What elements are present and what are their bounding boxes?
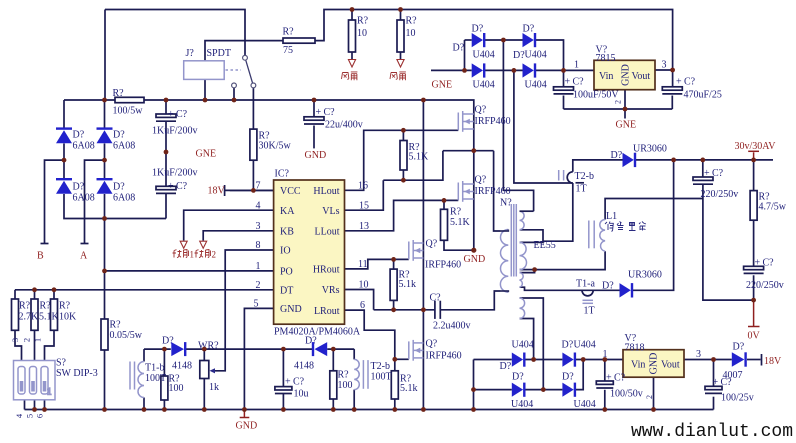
- current transformer T1-a 1T: [576, 279, 595, 317]
- svg-text:220/250v: 220/250v: [746, 280, 784, 291]
- wire switch left contact to bus: [233, 88, 235, 100]
- svg-text:HLout: HLout: [313, 186, 339, 197]
- svg-text:100: 100: [169, 383, 184, 394]
- wire UR3060 no2 cathode riser to output: [633, 160, 674, 290]
- wire WR potentiometer leads: [203, 349, 205, 360]
- resistor R? 100 no1: [161, 374, 184, 401]
- node ground bus junctions: [32, 407, 656, 412]
- wire IC pin16 HLout to Q1 gate: [345, 130, 459, 190]
- capacitor C? 1KuF/200v upper: [152, 109, 198, 136]
- svg-text:100T: 100T: [145, 373, 166, 384]
- capacitor C? 470uF/25: [662, 77, 722, 101]
- transistor Q1 IRFP460: [458, 105, 510, 132]
- svg-text:D?: D?: [113, 130, 125, 141]
- wire C220 no1 top stub: [702, 160, 704, 177]
- ground label GND bus: [236, 421, 258, 432]
- wire output rail 30v: [636, 159, 773, 161]
- svg-text:5.1K: 5.1K: [409, 152, 430, 163]
- svg-text:GND: GND: [649, 353, 660, 375]
- capacitor C? 100/50v: [596, 373, 642, 400]
- wire GNE stub under 7815: [624, 109, 626, 119]
- wire ground bus bottom: [25, 409, 714, 411]
- port 18V left label: [208, 186, 226, 197]
- svg-text:+: +: [676, 77, 682, 88]
- wire 18V bar to IC pin7: [225, 189, 274, 191]
- diode D? U404 low bridge bottom-right: [562, 372, 596, 411]
- diode D? 4007: [723, 342, 746, 382]
- svg-text:IRFP460: IRFP460: [425, 260, 461, 271]
- svg-text:4: 4: [256, 200, 261, 211]
- svg-text:5: 5: [254, 299, 259, 310]
- svg-text:1KuF/200v: 1KuF/200v: [152, 168, 198, 179]
- resistor R? 5.1K divider: [31, 299, 60, 330]
- wire IC pin13 LLout to Q2 gate: [345, 200, 459, 230]
- wire T1-b leads: [143, 349, 145, 361]
- wire L1 top lead to C220 no1: [605, 199, 703, 220]
- svg-text:D?: D?: [73, 182, 85, 193]
- svg-text:D?: D?: [562, 372, 574, 383]
- svg-text:PO: PO: [280, 267, 293, 278]
- svg-text:J?: J?: [186, 48, 195, 59]
- capacitor C? 100/25v: [705, 377, 754, 404]
- port 30v/30AV: [735, 141, 777, 152]
- svg-text:100T: 100T: [371, 372, 392, 383]
- svg-text:DT: DT: [280, 286, 293, 297]
- wire U404 bottom bridge left drop: [473, 360, 475, 410]
- svg-text:R?: R?: [59, 301, 71, 312]
- node Q1 gate divider: [401, 128, 406, 183]
- transistor Q4 IRFP460: [409, 339, 462, 362]
- label control1 control2 (CJK): [173, 250, 217, 260]
- switch S? SW DIP-3: [14, 358, 98, 400]
- svg-text:11: 11: [358, 259, 368, 270]
- wire aux bridge mid node riser to T2-b: [514, 70, 573, 183]
- svg-text:R?: R?: [357, 16, 369, 27]
- svg-text:6A08: 6A08: [113, 193, 135, 204]
- resistor R? 2.7K: [12, 299, 40, 330]
- wire R5.1K no2 leads: [443, 200, 445, 209]
- svg-text:75: 75: [283, 45, 293, 56]
- svg-text:KB: KB: [280, 227, 294, 238]
- svg-text:D?: D?: [73, 130, 85, 141]
- ground symbol GND main: [243, 410, 245, 418]
- svg-text:IRFP460: IRFP460: [475, 116, 511, 127]
- wire 7815 GND pin stub: [624, 90, 626, 109]
- svg-text:13: 13: [359, 221, 369, 232]
- diode D? U404 low bridge bottom-left: [511, 372, 533, 411]
- transformer secondary winding W1: [520, 211, 534, 230]
- diode D? U404 aux bottom row left: [453, 43, 495, 91]
- svg-text:GND: GND: [305, 150, 327, 161]
- svg-text:GND: GND: [280, 304, 302, 315]
- svg-text:2: 2: [22, 338, 32, 342]
- svg-text:10: 10: [357, 28, 367, 39]
- svg-text:U404: U404: [473, 80, 495, 91]
- svg-text:R?: R?: [283, 27, 295, 38]
- svg-text:6: 6: [35, 414, 45, 418]
- resistor R? 10K: [51, 299, 78, 330]
- svg-text:2: 2: [256, 280, 261, 291]
- resistor R? 5.1k no3: [390, 269, 416, 300]
- wire left bridge leg vertical: [422, 100, 424, 410]
- svg-text:2.7K: 2.7K: [19, 312, 40, 323]
- svg-text:100/25v: 100/25v: [721, 393, 754, 404]
- resistor R? 10 fan1: [349, 16, 369, 53]
- resistor R? 100 no2: [330, 370, 353, 400]
- svg-text:T2-b: T2-b: [575, 171, 594, 182]
- wire C470 leads: [672, 70, 674, 87]
- svg-text:4.7/5w: 4.7/5w: [759, 202, 787, 213]
- svg-text:4148: 4148: [172, 361, 192, 372]
- svg-text:KA: KA: [280, 206, 295, 217]
- port arrow control2: [200, 241, 207, 248]
- wire IC pin5 GND riser: [244, 308, 273, 409]
- svg-text:PM4020A/PM4060A: PM4020A/PM4060A: [274, 327, 361, 338]
- diode D? U404 low bridge top-right: [562, 340, 596, 367]
- wire W2 bottom lead: [520, 269, 535, 271]
- transformer secondary winding W2: [520, 242, 527, 269]
- svg-text:18V: 18V: [208, 186, 226, 197]
- svg-text:WR?: WR?: [198, 341, 219, 352]
- wire C100-50v no2 leads: [604, 360, 606, 382]
- svg-text:470uF/25: 470uF/25: [684, 90, 722, 101]
- wire IC pin10 VRs riser: [345, 290, 374, 310]
- svg-text:1T: 1T: [576, 184, 587, 195]
- svg-text:SW DIP-3: SW DIP-3: [56, 368, 98, 379]
- svg-text:3: 3: [662, 60, 667, 71]
- wire W4 bottom lead riser: [520, 319, 534, 360]
- wire divider resistor bottom leads into DIP: [15, 330, 22, 360]
- svg-text:L1: L1: [606, 211, 617, 222]
- wire B terminal stub: [45, 160, 65, 243]
- svg-text:5: 5: [25, 414, 35, 418]
- svg-text:T2-b: T2-b: [371, 361, 390, 372]
- svg-text:D?: D?: [512, 372, 524, 383]
- wire aux winding W1 top lead riser: [503, 40, 533, 211]
- svg-text:0V: 0V: [748, 331, 761, 342]
- node right leg midpoint: [471, 148, 476, 153]
- svg-text:6: 6: [360, 300, 365, 311]
- node Q4 gate: [392, 357, 397, 362]
- svg-text:C?: C?: [684, 77, 696, 88]
- svg-text:100/50v: 100/50v: [610, 389, 643, 400]
- wire R5.1K no1 bottom lead: [402, 170, 404, 180]
- regulator V? 7818: [603, 333, 702, 399]
- svg-text:1: 1: [47, 387, 52, 397]
- svg-text:D?: D?: [453, 43, 465, 54]
- power port 30v stub: [753, 152, 755, 160]
- label fan2 (CJK): [390, 72, 406, 80]
- wire HV bus y=100: [64, 99, 115, 101]
- transformer secondary winding W4: [520, 298, 525, 319]
- wire U404 bottom bridge top row: [474, 359, 512, 361]
- wire top rail left segment: [105, 10, 245, 56]
- current transformer T2-b 1T: [559, 170, 594, 195]
- terminal A label: [80, 251, 88, 262]
- svg-text:10: 10: [359, 280, 369, 291]
- svg-text:10u: 10u: [294, 389, 309, 400]
- svg-text:100/5w: 100/5w: [113, 106, 144, 117]
- svg-text:Q?: Q?: [475, 175, 487, 186]
- svg-text:GND: GND: [236, 421, 258, 432]
- wire C22u leads: [313, 100, 315, 117]
- node left leg midpoint: [391, 307, 426, 312]
- wire IC pin3 KB to control arrow: [203, 231, 273, 241]
- switch SPDT contacts and blade: [226, 55, 256, 87]
- power port 0V stub: [753, 300, 755, 326]
- svg-text:D?: D?: [602, 281, 614, 292]
- resistor R? 0.05/5w: [101, 319, 143, 350]
- pin numbers IC left: [254, 180, 261, 309]
- wire primary bottom stub: [501, 291, 508, 292]
- pin numbers IC right: [358, 180, 369, 311]
- node low bridge junctions: [471, 357, 716, 392]
- wire 7818 pin3 to D4007: [684, 359, 732, 361]
- wire relay coil bottom lead: [204, 79, 206, 100]
- wire IC pin8 IO riser to WR wiper: [214, 250, 274, 371]
- svg-text:R?: R?: [40, 301, 52, 312]
- transistor Q2 IRFP460: [458, 175, 510, 202]
- transformer N? EE55 core: [500, 198, 556, 277]
- node Q3 gate: [391, 257, 396, 262]
- node 7815 rails: [623, 68, 675, 112]
- wire U404 top bridge bottom row GNE: [431, 69, 472, 71]
- capacitor C? 10u: [275, 377, 309, 400]
- svg-text:2: 2: [614, 100, 623, 104]
- svg-text:C?: C?: [573, 77, 585, 88]
- svg-text:7: 7: [256, 180, 261, 191]
- node Q2 gate: [442, 198, 447, 203]
- port 18V right label: [764, 356, 782, 367]
- node HV bus junctions: [102, 98, 426, 103]
- svg-text:Vout: Vout: [632, 71, 651, 82]
- port arrow fan2: [397, 60, 404, 68]
- svg-text:6A08: 6A08: [113, 141, 135, 152]
- svg-text:16: 16: [358, 180, 368, 191]
- terminal bar 18V right: [761, 354, 763, 366]
- svg-text:R?: R?: [338, 370, 350, 381]
- wire R75 right lead to top rail to 7815 pin3: [315, 10, 673, 71]
- diode D? 4148 no2: [294, 336, 327, 372]
- svg-text:R?: R?: [406, 16, 418, 27]
- svg-text:GNE: GNE: [616, 120, 637, 131]
- wire DIP pin5 pin6 stubs: [34, 400, 36, 410]
- svg-text:U404: U404: [512, 340, 534, 351]
- pin numbers DIP bottom 4 5 6: [14, 413, 45, 418]
- svg-text:D?: D?: [611, 150, 623, 161]
- svg-text:220/250v: 220/250v: [701, 189, 739, 200]
- svg-text:T1-b: T1-b: [145, 363, 164, 374]
- svg-text:LLout: LLout: [315, 227, 340, 238]
- wire divider resistor top leads: [14, 290, 16, 299]
- wire R100 no1 leads: [163, 349, 165, 376]
- diode D? UR3060 top: [611, 144, 667, 168]
- wire A terminal stub: [85, 160, 105, 243]
- wire T2-b 100T leads: [353, 349, 355, 359]
- transformer T2-b 100T: [354, 359, 391, 389]
- resistor R? 75: [283, 27, 316, 57]
- diode D? U404 low bridge top-left: [500, 340, 534, 373]
- svg-text:5.1k: 5.1k: [400, 383, 418, 394]
- svg-text:5.1K: 5.1K: [39, 312, 60, 323]
- svg-text:1: 1: [190, 250, 195, 260]
- diode D? U404 aux top row right: [523, 24, 547, 61]
- wire R4.7 top lead: [753, 160, 755, 191]
- svg-text:HRout: HRout: [313, 265, 340, 276]
- port 0V label: [748, 331, 761, 342]
- wire DIP pin4 corner: [24, 400, 26, 410]
- terminal B label: [37, 251, 44, 262]
- svg-text:1: 1: [574, 60, 579, 71]
- svg-text:R?: R?: [113, 88, 125, 99]
- resistor R? 10 fan2: [397, 16, 417, 53]
- wire bridge left column: [63, 100, 65, 128]
- wire L1 bottom lead to tap2: [535, 251, 606, 269]
- svg-text:Q?: Q?: [426, 339, 438, 350]
- wire relay top lead and R75 left lead: [205, 41, 283, 61]
- node 0V junction: [751, 298, 756, 303]
- wire 1KuF capacitor chain: [165, 100, 167, 114]
- svg-text:Q?: Q?: [426, 239, 438, 250]
- transformer T1-b 100T: [130, 362, 166, 398]
- svg-text:C?: C?: [293, 377, 305, 388]
- wire U404 top bridge top row: [465, 39, 472, 41]
- wire R100 no2 leads: [332, 349, 334, 371]
- diode D? U404 aux bottom row right: [513, 50, 547, 91]
- svg-text:C?: C?: [176, 109, 188, 120]
- svg-text:GND: GND: [464, 254, 486, 265]
- wire R5.1k no3 leads: [393, 259, 395, 269]
- node GNE mid capacitors: [164, 149, 216, 160]
- resistor R? 5.1K no2: [441, 207, 471, 241]
- wire D4007 cathode to 18V bar: [747, 359, 761, 361]
- svg-text:1T: 1T: [584, 306, 595, 317]
- wire IC pin11 HRout to Q3 gate: [345, 259, 409, 269]
- resistor R? 5.1k no4: [391, 371, 417, 399]
- svg-text:U404: U404: [525, 50, 547, 61]
- svg-text:+: +: [565, 77, 571, 88]
- svg-text:IRFP460: IRFP460: [426, 351, 462, 362]
- terminal bar B: [41, 243, 49, 245]
- svg-text:D?: D?: [113, 182, 125, 193]
- wire IC pin1 PO row: [105, 270, 274, 272]
- svg-text:www.dianlut.com: www.dianlut.com: [631, 422, 793, 442]
- svg-text:1: 1: [33, 338, 43, 342]
- svg-text:U404: U404: [473, 50, 495, 61]
- wire R5.1K no1 top lead: [402, 130, 404, 140]
- resistor R? 4.7/5w: [750, 191, 787, 221]
- wire tap1 to W1 bottom and W2 top: [543, 183, 573, 241]
- wire IC pin6 LRout to Q4 gate: [345, 310, 395, 359]
- svg-text:10: 10: [406, 28, 416, 39]
- svg-text:C?: C?: [614, 373, 626, 384]
- node DT divider taps: [32, 287, 56, 292]
- svg-text:18V: 18V: [764, 356, 782, 367]
- wire left leg midpoint to C2.2u: [374, 309, 435, 311]
- capacitor C? 1KuF/200v lower: [152, 168, 198, 194]
- svg-text:GNE: GNE: [432, 80, 453, 91]
- wire R10 fan leads: [351, 10, 353, 21]
- watermark www.dianlut.com: [631, 422, 793, 442]
- svg-text:LRout: LRout: [314, 306, 340, 317]
- wire VLs node to right leg midpoint: [383, 151, 443, 181]
- svg-text:C?: C?: [176, 181, 188, 192]
- svg-text:D?: D?: [513, 50, 525, 61]
- svg-text:GNE: GNE: [196, 149, 217, 160]
- svg-text:5.1K: 5.1K: [450, 217, 471, 228]
- resistor R? 5.1K no1: [400, 141, 429, 171]
- wire W3 top lead: [520, 270, 535, 273]
- wire primary top stub: [501, 230, 508, 232]
- diode D1 6A08 top-left: [56, 129, 95, 152]
- svg-text:2: 2: [212, 250, 217, 260]
- svg-text:1k: 1k: [209, 382, 219, 393]
- power port GND at Q2 source: [464, 254, 486, 265]
- wire C220 no1 bottom riser to 0V node: [703, 185, 754, 301]
- svg-text:6A08: 6A08: [73, 141, 95, 152]
- terminal bar A: [81, 243, 89, 245]
- capacitor C? 2.2u400v: [430, 293, 471, 332]
- svg-text:1KuF/200v: 1KuF/200v: [152, 126, 198, 137]
- svg-text:A: A: [80, 251, 88, 262]
- wire C10u leads: [282, 349, 284, 387]
- svg-text:8: 8: [256, 240, 261, 251]
- wire IC pin2 DT row to divider resistors: [15, 289, 274, 291]
- transformer primary winding: [500, 230, 508, 293]
- diode D4 6A08 bottom-right: [97, 179, 136, 203]
- wire bridge right column: [104, 100, 106, 128]
- wire right bridge leg vertical: [473, 114, 475, 250]
- transistor Q3 IRFP460: [409, 239, 461, 271]
- svg-text:Vout: Vout: [661, 360, 680, 371]
- svg-text:100: 100: [338, 380, 353, 391]
- capacitor C? 220/250v no1: [693, 168, 738, 200]
- svg-text:3: 3: [256, 221, 261, 232]
- svg-text:+: +: [168, 109, 174, 120]
- node tap2: [532, 267, 537, 272]
- svg-text:D?: D?: [305, 336, 317, 347]
- wire C220 no2 bottom stub: [753, 275, 755, 300]
- diode D2 6A08 top-right: [97, 129, 136, 152]
- wire W4 top lead riser: [520, 298, 544, 390]
- wire HV negative rail riser x=104.5: [104, 219, 106, 320]
- svg-text:U404: U404: [511, 399, 533, 410]
- inductor L1 storage choke: [589, 211, 617, 251]
- wire IC pin15 VLs riser: [345, 180, 384, 210]
- svg-text:SPDT: SPDT: [207, 48, 231, 59]
- svg-text:N?: N?: [500, 198, 512, 209]
- wire U404 bottom bridge bottom row: [474, 389, 512, 391]
- node top rail R10 fan taps: [350, 7, 403, 12]
- node GND at Q2 source: [471, 248, 476, 253]
- svg-text:C?: C?: [430, 293, 442, 304]
- svg-text:VLs: VLs: [322, 206, 339, 217]
- svg-text:IO: IO: [280, 246, 291, 257]
- diode D? UR3060 bottom: [602, 270, 662, 298]
- capacitor C? 22u/400v: [304, 107, 363, 131]
- svg-text:D?: D?: [500, 361, 512, 372]
- pin numbers DIP top 3 2 1: [10, 338, 43, 342]
- svg-text:0.05/5w: 0.05/5w: [110, 330, 143, 341]
- svg-text:U404: U404: [574, 340, 596, 351]
- IC U1 PM4020A/PM4060A: [274, 169, 361, 338]
- capacitor C? 100uF/50V: [554, 77, 620, 101]
- svg-text:D?: D?: [562, 340, 574, 351]
- capacitor C? 220/250v no2: [744, 258, 784, 292]
- svg-text:10K: 10K: [59, 312, 77, 323]
- svg-text:D?: D?: [472, 24, 484, 35]
- wire T2-b 1T top lead to UR3060: [573, 160, 623, 172]
